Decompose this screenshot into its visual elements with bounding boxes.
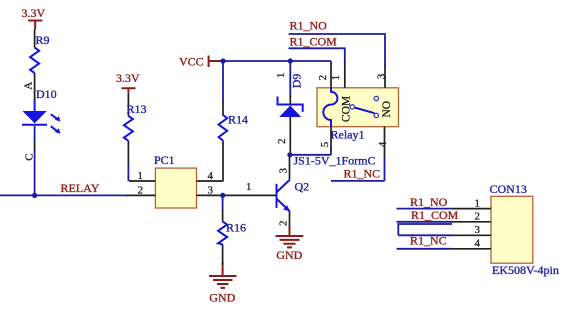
svg-text:R1_NC: R1_NC bbox=[410, 234, 447, 248]
svg-text:Relay1: Relay1 bbox=[331, 128, 365, 142]
svg-text:R13: R13 bbox=[127, 102, 147, 116]
svg-text:1: 1 bbox=[246, 181, 252, 193]
svg-text:1: 1 bbox=[330, 75, 342, 81]
svg-text:1: 1 bbox=[475, 198, 481, 210]
svg-text:R9: R9 bbox=[36, 33, 50, 47]
svg-text:R1_NO: R1_NO bbox=[290, 19, 328, 33]
svg-text:4: 4 bbox=[475, 238, 481, 250]
svg-text:2: 2 bbox=[138, 184, 144, 196]
svg-text:RELAY: RELAY bbox=[61, 181, 100, 195]
svg-text:NO: NO bbox=[381, 101, 393, 118]
svg-text:EK508V-4pin: EK508V-4pin bbox=[492, 263, 559, 277]
svg-text:A: A bbox=[23, 82, 35, 90]
svg-text:2: 2 bbox=[475, 211, 481, 223]
svg-text:3: 3 bbox=[475, 224, 481, 236]
svg-text:JS1-5V_1FormC: JS1-5V_1FormC bbox=[294, 154, 376, 168]
svg-text:Q2: Q2 bbox=[295, 179, 310, 193]
svg-text:3: 3 bbox=[208, 184, 214, 196]
svg-text:R14: R14 bbox=[228, 113, 248, 127]
svg-text:5: 5 bbox=[319, 141, 331, 147]
svg-text:2: 2 bbox=[278, 221, 290, 227]
svg-text:2: 2 bbox=[317, 75, 329, 81]
svg-text:R1_NO: R1_NO bbox=[410, 195, 448, 209]
svg-text:GND: GND bbox=[209, 291, 235, 305]
svg-text:3: 3 bbox=[278, 168, 290, 174]
svg-text:R1_NC: R1_NC bbox=[344, 167, 381, 181]
svg-text:3.3V: 3.3V bbox=[116, 71, 140, 85]
svg-text:VCC: VCC bbox=[179, 55, 204, 69]
svg-text:1: 1 bbox=[275, 73, 287, 79]
svg-text:COM: COM bbox=[341, 96, 353, 122]
svg-text:4: 4 bbox=[208, 170, 214, 182]
svg-text:1: 1 bbox=[138, 170, 144, 182]
svg-text:R1_COM: R1_COM bbox=[411, 208, 459, 222]
svg-text:D10: D10 bbox=[36, 87, 57, 101]
svg-text:3.3V: 3.3V bbox=[22, 6, 46, 20]
svg-text:3: 3 bbox=[376, 73, 388, 79]
svg-text:GND: GND bbox=[276, 248, 302, 262]
svg-text:R1_COM: R1_COM bbox=[290, 35, 338, 49]
svg-text:R16: R16 bbox=[226, 221, 246, 235]
svg-text:CON13: CON13 bbox=[490, 182, 527, 196]
svg-text:PC1: PC1 bbox=[154, 153, 175, 167]
svg-text:C: C bbox=[23, 153, 35, 160]
svg-text:2: 2 bbox=[276, 139, 288, 145]
svg-text:D9: D9 bbox=[290, 74, 304, 89]
svg-text:4: 4 bbox=[377, 141, 389, 147]
